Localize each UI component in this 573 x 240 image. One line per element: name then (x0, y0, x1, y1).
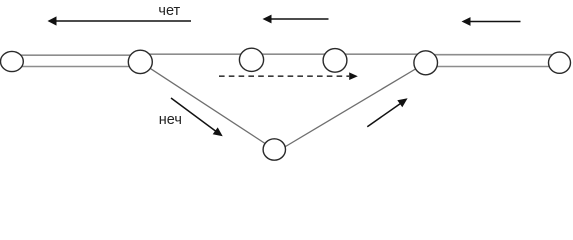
arrow up-right along C7-C5 (367, 98, 407, 127)
node C7 (263, 139, 285, 160)
node C4 (323, 49, 347, 73)
wire double-line segment C1-C2 top (12, 54, 141, 56)
node C2 (128, 50, 152, 73)
wire double-line segment C1-C2 bottom (12, 66, 141, 68)
node C1 (1, 51, 24, 71)
svg-text:чет: чет (158, 3, 180, 19)
wire diagonal C7-C5 (283, 68, 418, 149)
wire main horizontal C2-C5 (141, 53, 426, 55)
arrow left-pointing top-left (48, 16, 192, 25)
svg-text:неч: неч (159, 112, 182, 128)
arrow dashed right-pointing (219, 72, 358, 80)
arrow left-pointing top-middle (263, 15, 329, 24)
node C3 (239, 48, 263, 71)
node C5 (414, 51, 438, 75)
arrow left-pointing top-right (462, 17, 521, 26)
arrow down-right along C2-C7 (171, 98, 223, 136)
node C6 (549, 52, 571, 73)
wire diagonal C2-C7 (140, 62, 274, 150)
wire double-line segment C5-C6 top (426, 54, 560, 56)
wire double-line segment C5-C6 bottom (426, 66, 560, 68)
